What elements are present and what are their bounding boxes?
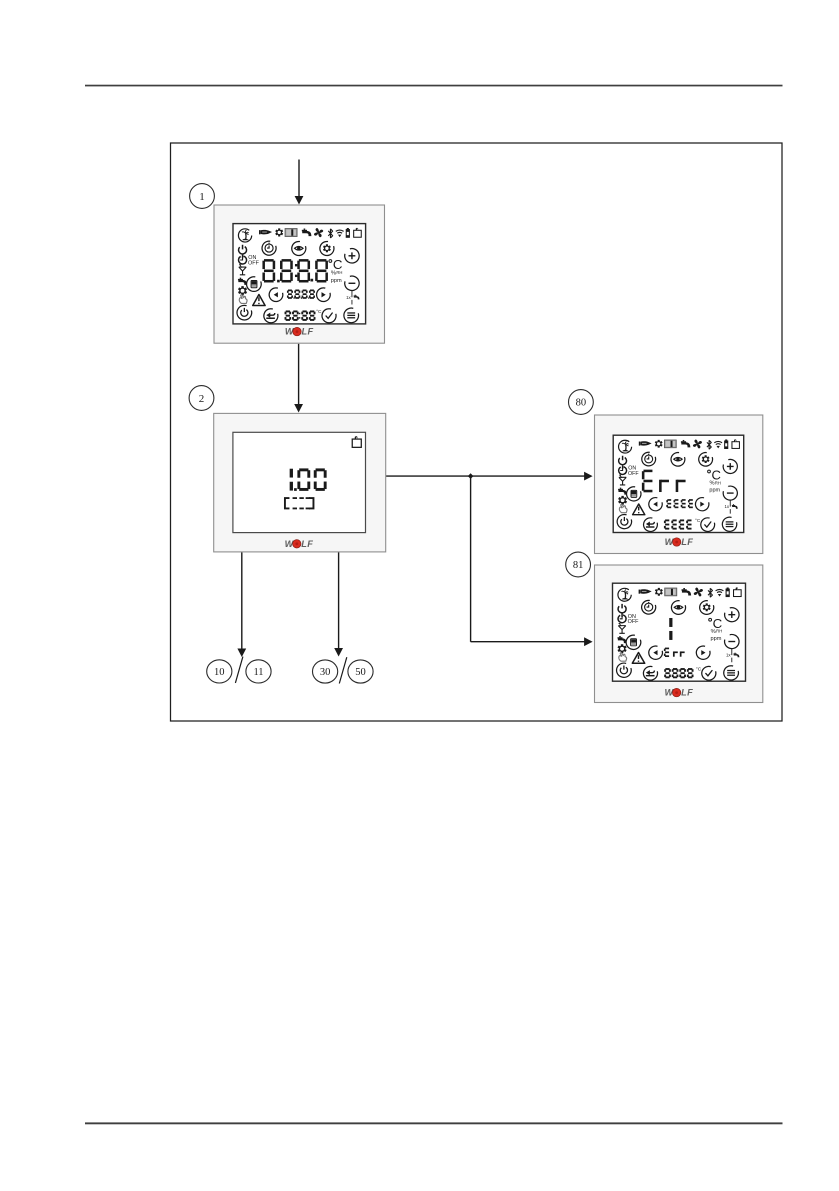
svg-text:RH: RH bbox=[716, 629, 722, 634]
svg-text:%: % bbox=[711, 629, 716, 635]
svg-text:30: 30 bbox=[320, 667, 331, 678]
svg-text:RH: RH bbox=[336, 270, 342, 275]
svg-text:80: 80 bbox=[576, 398, 587, 409]
svg-text:°C: °C bbox=[316, 309, 322, 315]
svg-text:RH: RH bbox=[715, 480, 721, 485]
svg-text:50: 50 bbox=[355, 667, 366, 678]
svg-text:1x: 1x bbox=[726, 653, 731, 658]
svg-text:1: 1 bbox=[199, 191, 205, 203]
svg-text:°C: °C bbox=[696, 667, 702, 673]
svg-text:ppm: ppm bbox=[711, 636, 722, 642]
svg-text:11: 11 bbox=[253, 667, 263, 678]
svg-text:OFF: OFF bbox=[628, 619, 640, 625]
svg-text:OFF: OFF bbox=[248, 261, 260, 267]
svg-text:°C: °C bbox=[695, 518, 701, 523]
svg-text:10: 10 bbox=[214, 667, 225, 678]
svg-text:ppm: ppm bbox=[709, 488, 720, 494]
svg-text:81: 81 bbox=[573, 560, 584, 571]
svg-text:1x: 1x bbox=[346, 295, 351, 300]
svg-text:OFF: OFF bbox=[628, 471, 639, 477]
svg-text:2: 2 bbox=[199, 393, 205, 405]
svg-text:%: % bbox=[331, 271, 336, 277]
svg-text:ppm: ppm bbox=[331, 278, 342, 284]
svg-text:%: % bbox=[709, 481, 714, 487]
